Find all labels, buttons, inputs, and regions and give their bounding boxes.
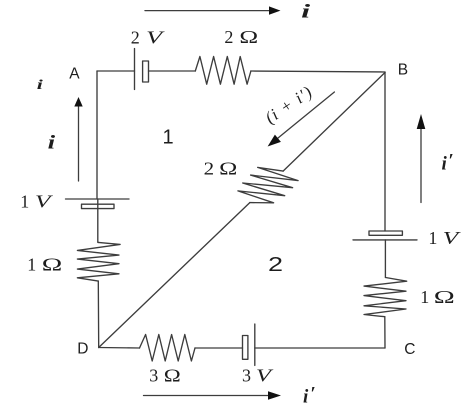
svg-text:Ω: Ω xyxy=(42,255,63,275)
value label 1 V right xyxy=(428,228,461,248)
svg-text:V: V xyxy=(256,366,274,386)
svg-text:1: 1 xyxy=(163,127,174,149)
node A label xyxy=(69,66,80,83)
wire right: battery to resistor 1ohm xyxy=(384,240,386,278)
loop label 2 xyxy=(268,254,283,276)
loop label 1 xyxy=(163,127,174,149)
value label 3 V xyxy=(242,366,274,386)
battery 1V right (short plate) xyxy=(369,231,402,235)
current label i top xyxy=(301,1,311,22)
svg-text:V: V xyxy=(146,27,165,47)
battery 3V (short plate) xyxy=(243,336,248,360)
current arrow i' (bottom) xyxy=(144,391,282,400)
wire left: resistor to node D xyxy=(97,281,99,347)
wire top: A to battery 2V xyxy=(97,70,135,72)
svg-text:i: i xyxy=(37,78,43,93)
svg-text:i′: i′ xyxy=(442,151,454,175)
wire top: battery 2V to resistor 2ohm xyxy=(149,70,196,72)
svg-text:D: D xyxy=(77,341,88,358)
node B label xyxy=(398,62,408,79)
svg-text:B: B xyxy=(398,62,408,79)
wire right: B down to battery 1V xyxy=(384,72,386,231)
node C label xyxy=(404,341,415,358)
svg-text:3: 3 xyxy=(242,366,251,386)
svg-text:V: V xyxy=(443,228,461,248)
value label 3 ohm xyxy=(149,366,181,386)
wire bottom: D to resistor 3ohm xyxy=(99,347,140,350)
wire diagonal: B to resistor 2ohm xyxy=(283,73,385,172)
current arrow (i+i') diagonal xyxy=(268,92,335,147)
svg-text:V: V xyxy=(35,192,53,212)
resistor R top 2ohm xyxy=(195,57,251,85)
svg-text:2: 2 xyxy=(268,254,283,276)
wire right: resistor to node C xyxy=(384,317,386,348)
svg-text:3: 3 xyxy=(149,366,158,386)
svg-text:A: A xyxy=(69,66,80,83)
svg-text:2: 2 xyxy=(224,27,233,47)
svg-text:1: 1 xyxy=(428,228,437,248)
svg-text:(i + i′): (i + i′) xyxy=(262,82,316,127)
resistor R diagonal 2ohm xyxy=(238,167,298,202)
current label i' bottom xyxy=(303,383,316,407)
battery 1V left (short plate) xyxy=(82,204,115,208)
resistor R left 1ohm xyxy=(77,242,120,281)
svg-text:1: 1 xyxy=(27,255,36,275)
svg-text:Ω: Ω xyxy=(164,366,181,386)
battery 1V left (long plate) xyxy=(66,198,130,200)
current label i left xyxy=(48,133,57,154)
svg-text:C: C xyxy=(404,341,415,358)
value label 1 ohm right xyxy=(420,287,455,307)
battery 2V (short plate) xyxy=(143,61,149,82)
current label i small left xyxy=(37,78,43,93)
value label 2 ohm top xyxy=(224,27,258,47)
svg-text:1: 1 xyxy=(20,192,29,212)
battery 1V right (long plate) xyxy=(353,239,417,241)
current arrow i' (right) xyxy=(417,114,426,203)
resistor R bottom 3ohm xyxy=(140,335,196,362)
wire left: A down to battery 1V xyxy=(96,71,98,199)
svg-text:2: 2 xyxy=(204,158,215,178)
wire left: battery to resistor 1ohm xyxy=(97,199,100,242)
battery 2V (long plate) xyxy=(134,49,136,90)
wire top: resistor to node B xyxy=(251,71,385,72)
value label 1 ohm left xyxy=(27,255,62,275)
svg-text:Ω: Ω xyxy=(219,158,237,178)
wire bottom: resistor to battery 3V xyxy=(195,347,243,349)
battery 3V (long plate) xyxy=(254,324,256,365)
current arrow i (left) xyxy=(74,97,82,181)
svg-text:i: i xyxy=(301,1,311,22)
wire bottom: battery 3V to node C xyxy=(255,347,385,349)
value label 2 ohm diagonal xyxy=(204,158,238,178)
resistor R right 1ohm xyxy=(364,278,407,317)
svg-text:Ω: Ω xyxy=(434,287,455,307)
current label (i+i') diagonal xyxy=(262,82,316,127)
svg-text:2: 2 xyxy=(131,27,140,47)
value label 2 V xyxy=(131,27,165,47)
svg-text:i: i xyxy=(48,133,57,154)
wire diagonal: resistor to node D xyxy=(99,203,250,348)
current arrow i (top) xyxy=(145,6,281,14)
current label i' right xyxy=(442,151,454,175)
svg-text:Ω: Ω xyxy=(239,27,258,47)
svg-text:i′: i′ xyxy=(303,383,316,407)
node D label xyxy=(77,341,88,358)
svg-text:1: 1 xyxy=(420,287,429,307)
value label 1 V left xyxy=(20,192,53,212)
